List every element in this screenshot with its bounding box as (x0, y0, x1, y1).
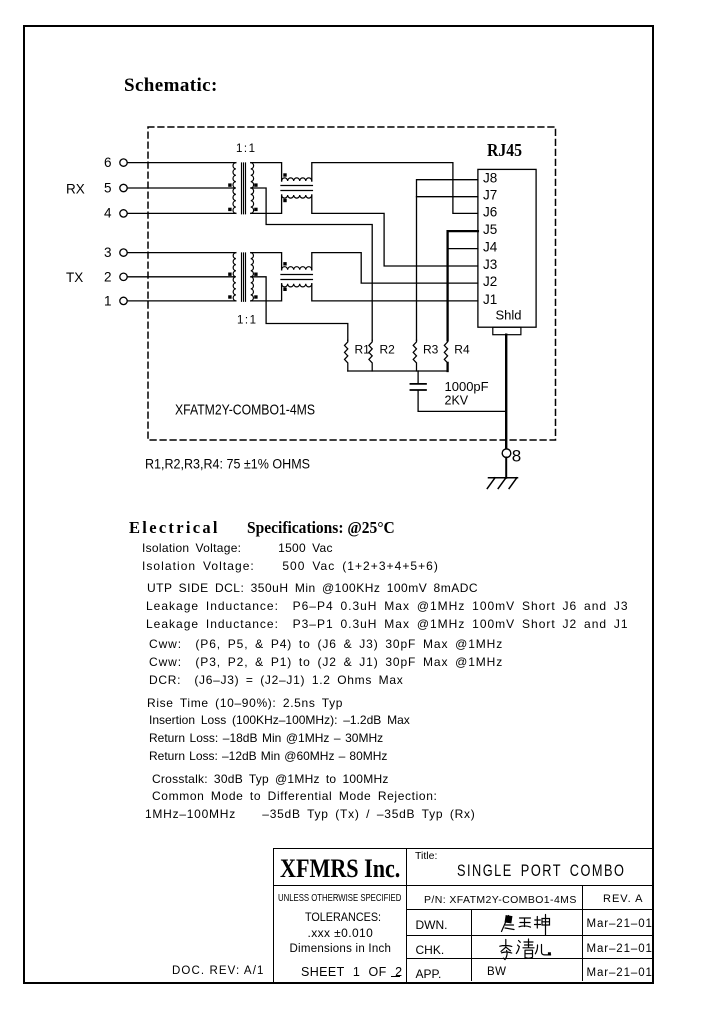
wire RJ45 J5 to R4 (thick) (448, 231, 478, 340)
svg-text:Shld: Shld (496, 307, 522, 322)
svg-text:RJ45: RJ45 (487, 140, 522, 160)
title block horizontal line under P/N row (406, 909, 653, 910)
wire L1 top output to RJ45 J6 (312, 163, 478, 214)
Title: label (415, 850, 437, 862)
transformer T2 primary winding (233, 253, 236, 301)
schematic dashed boundary box (148, 127, 556, 440)
sheet number (301, 965, 402, 979)
svg-text:R2: R2 (380, 343, 396, 357)
svg-text:5: 5 (104, 180, 112, 195)
pin 8 terminal circle (502, 449, 511, 458)
DWN handwritten signature (Chinese) (499, 912, 553, 936)
XFMRS Inc. logo text (280, 854, 400, 884)
svg-text:8: 8 (512, 447, 521, 466)
doc rev label (172, 965, 264, 977)
CHK row label (416, 943, 445, 957)
svg-text:R1,R2,R3,R4: 75 ±1% OHMS: R1,R2,R3,R4: 75 ±1% OHMS (145, 457, 310, 472)
wire pin5 to T1 primary center tap (127, 187, 234, 189)
L2 polarity dot bottom (283, 288, 286, 291)
capacitor C1 plates (410, 384, 426, 390)
wire T1 secondary bottom to choke L1 (251, 195, 282, 213)
svg-text:R3: R3 (423, 343, 439, 357)
transformer T2 secondary winding (251, 253, 254, 301)
svg-text:J5: J5 (483, 222, 497, 237)
wire T2 secondary top to choke L2 (251, 253, 282, 270)
T1 polarity dot secondary upper (254, 183, 257, 186)
REV label (603, 893, 643, 905)
CHK date (587, 943, 653, 955)
tolerances note (305, 910, 381, 924)
svg-text:1:1: 1:1 (236, 143, 257, 155)
resistor R3 (413, 340, 416, 371)
L1 polarity dot top (283, 173, 286, 176)
pin 3 terminal circle (120, 249, 127, 256)
resistor R1 (345, 340, 348, 371)
svg-text:1000pF: 1000pF (445, 379, 489, 394)
svg-text:J7: J7 (483, 188, 497, 203)
svg-text:3: 3 (104, 245, 112, 260)
L1 polarity dot bottom (283, 199, 286, 202)
title block horizontal line under CHK row (406, 958, 653, 959)
DWN row label (416, 918, 448, 932)
svg-text:J3: J3 (483, 257, 497, 272)
APP date (587, 967, 653, 979)
resistor bottom bus wire (348, 370, 448, 372)
wire pin 8 to chassis ground (505, 458, 507, 478)
wire pin2 to T2 primary center tap (127, 276, 234, 278)
title block horizontal line under DWN row (406, 935, 653, 936)
common-mode choke L2 top winding (282, 267, 312, 270)
pin 6 terminal circle (120, 159, 127, 166)
SCHEMATIC SVG (0, 0, 720, 512)
svg-text:6: 6 (104, 155, 112, 170)
dimensions note (290, 943, 392, 955)
pin 5 terminal circle (120, 184, 127, 191)
title block vertical divider after row labels (471, 909, 472, 981)
chassis ground symbol (487, 478, 517, 489)
svg-text:4: 4 (104, 205, 112, 220)
RJ45 shield tab (493, 327, 521, 335)
shield ground wire (thick) (505, 335, 507, 449)
resistor R4 lower stub (thick) (446, 363, 448, 371)
DWN date (587, 918, 653, 930)
transformer T1 core lines (242, 163, 246, 214)
svg-text:J2: J2 (483, 274, 497, 289)
wire RJ45 J4 stub (448, 248, 478, 250)
title block outer box (273, 848, 654, 983)
unless otherwise specified note (278, 892, 401, 904)
svg-text:1:1: 1:1 (237, 315, 258, 327)
transformer T1 primary winding (233, 163, 236, 214)
T2 polarity dot primary upper (228, 273, 231, 276)
svg-text:XFATM2Y-COMBO1-4MS: XFATM2Y-COMBO1-4MS (175, 403, 315, 419)
wire T2 secondary bottom to choke L2 (251, 284, 282, 301)
wire capacitor C1 to shield line (418, 391, 506, 412)
wire L2 top output to RJ45 J2 (312, 253, 478, 284)
T1 polarity dot primary lower (228, 208, 231, 211)
common-mode choke L1 top winding (282, 178, 312, 181)
heading Schematic: (124, 75, 218, 97)
wire pin4 to T1 primary bottom (127, 212, 236, 214)
wire T2 secondary center tap to R1 (251, 277, 348, 341)
CHK handwritten signature (Chinese) (498, 938, 552, 961)
wire T1 secondary center tap to R2 (251, 188, 372, 340)
svg-text:J1: J1 (483, 292, 497, 307)
title block vertical divider main (406, 848, 407, 982)
wire L1 bottom output to RJ45 J3 (312, 195, 478, 266)
resistor R4 (444, 340, 447, 363)
wire L2 bottom output to RJ45 J1 (312, 284, 478, 301)
svg-text:R1: R1 (355, 343, 371, 357)
svg-text:1: 1 (104, 294, 112, 309)
APP signature BW (487, 966, 507, 978)
APP row label (416, 967, 442, 981)
choke L1 core lines (281, 186, 312, 191)
transformer T1 secondary winding (251, 163, 254, 214)
T1 polarity dot primary upper (228, 183, 231, 186)
svg-text:2: 2 (104, 269, 112, 284)
resistor R2 (369, 340, 372, 371)
.xxx tolerance value (308, 926, 374, 940)
svg-text:R4: R4 (454, 343, 470, 357)
title block vertical divider before REV/date column (582, 885, 583, 982)
T2 polarity dot secondary upper (254, 273, 257, 276)
T1 polarity dot secondary lower (254, 208, 257, 211)
svg-text:J8: J8 (483, 171, 497, 186)
L2 polarity dot top (283, 262, 286, 265)
choke L2 core lines (281, 275, 312, 280)
common-mode choke L1 bottom winding (282, 195, 312, 198)
wire pin1 to T2 primary bottom (127, 300, 236, 302)
wire RJ45 J7 stub (417, 196, 478, 198)
pin 1 terminal circle (120, 297, 127, 304)
transformer T2 core lines (242, 253, 246, 301)
svg-text:TX: TX (66, 270, 83, 285)
T2 polarity dot secondary lower (254, 295, 257, 298)
svg-text:2KV: 2KV (445, 394, 469, 408)
svg-text:J4: J4 (483, 240, 498, 255)
svg-text:RX: RX (66, 182, 85, 197)
P/N label (424, 894, 577, 906)
T2 polarity dot primary lower (228, 295, 231, 298)
pin 2 terminal circle (120, 273, 127, 280)
svg-text:J6: J6 (483, 204, 497, 219)
common-mode choke L2 bottom winding (282, 284, 312, 287)
pin 4 terminal circle (120, 210, 127, 217)
ELECTRICAL SPECIFICATIONS (129, 518, 404, 538)
wire bus to capacitor C1 (417, 371, 419, 383)
drawing title SINGLE PORT COMBO (457, 861, 625, 881)
wire RJ45 J8 to R3 (417, 180, 478, 341)
RJ45 connector body U1 (478, 169, 536, 327)
wire pin3 to T2 primary top (127, 252, 236, 254)
wire pin6 to T1 primary top (127, 162, 236, 164)
wire T1 secondary top to choke L1 (251, 163, 282, 181)
title block horizontal line under XFMRS/Title row (273, 885, 653, 886)
